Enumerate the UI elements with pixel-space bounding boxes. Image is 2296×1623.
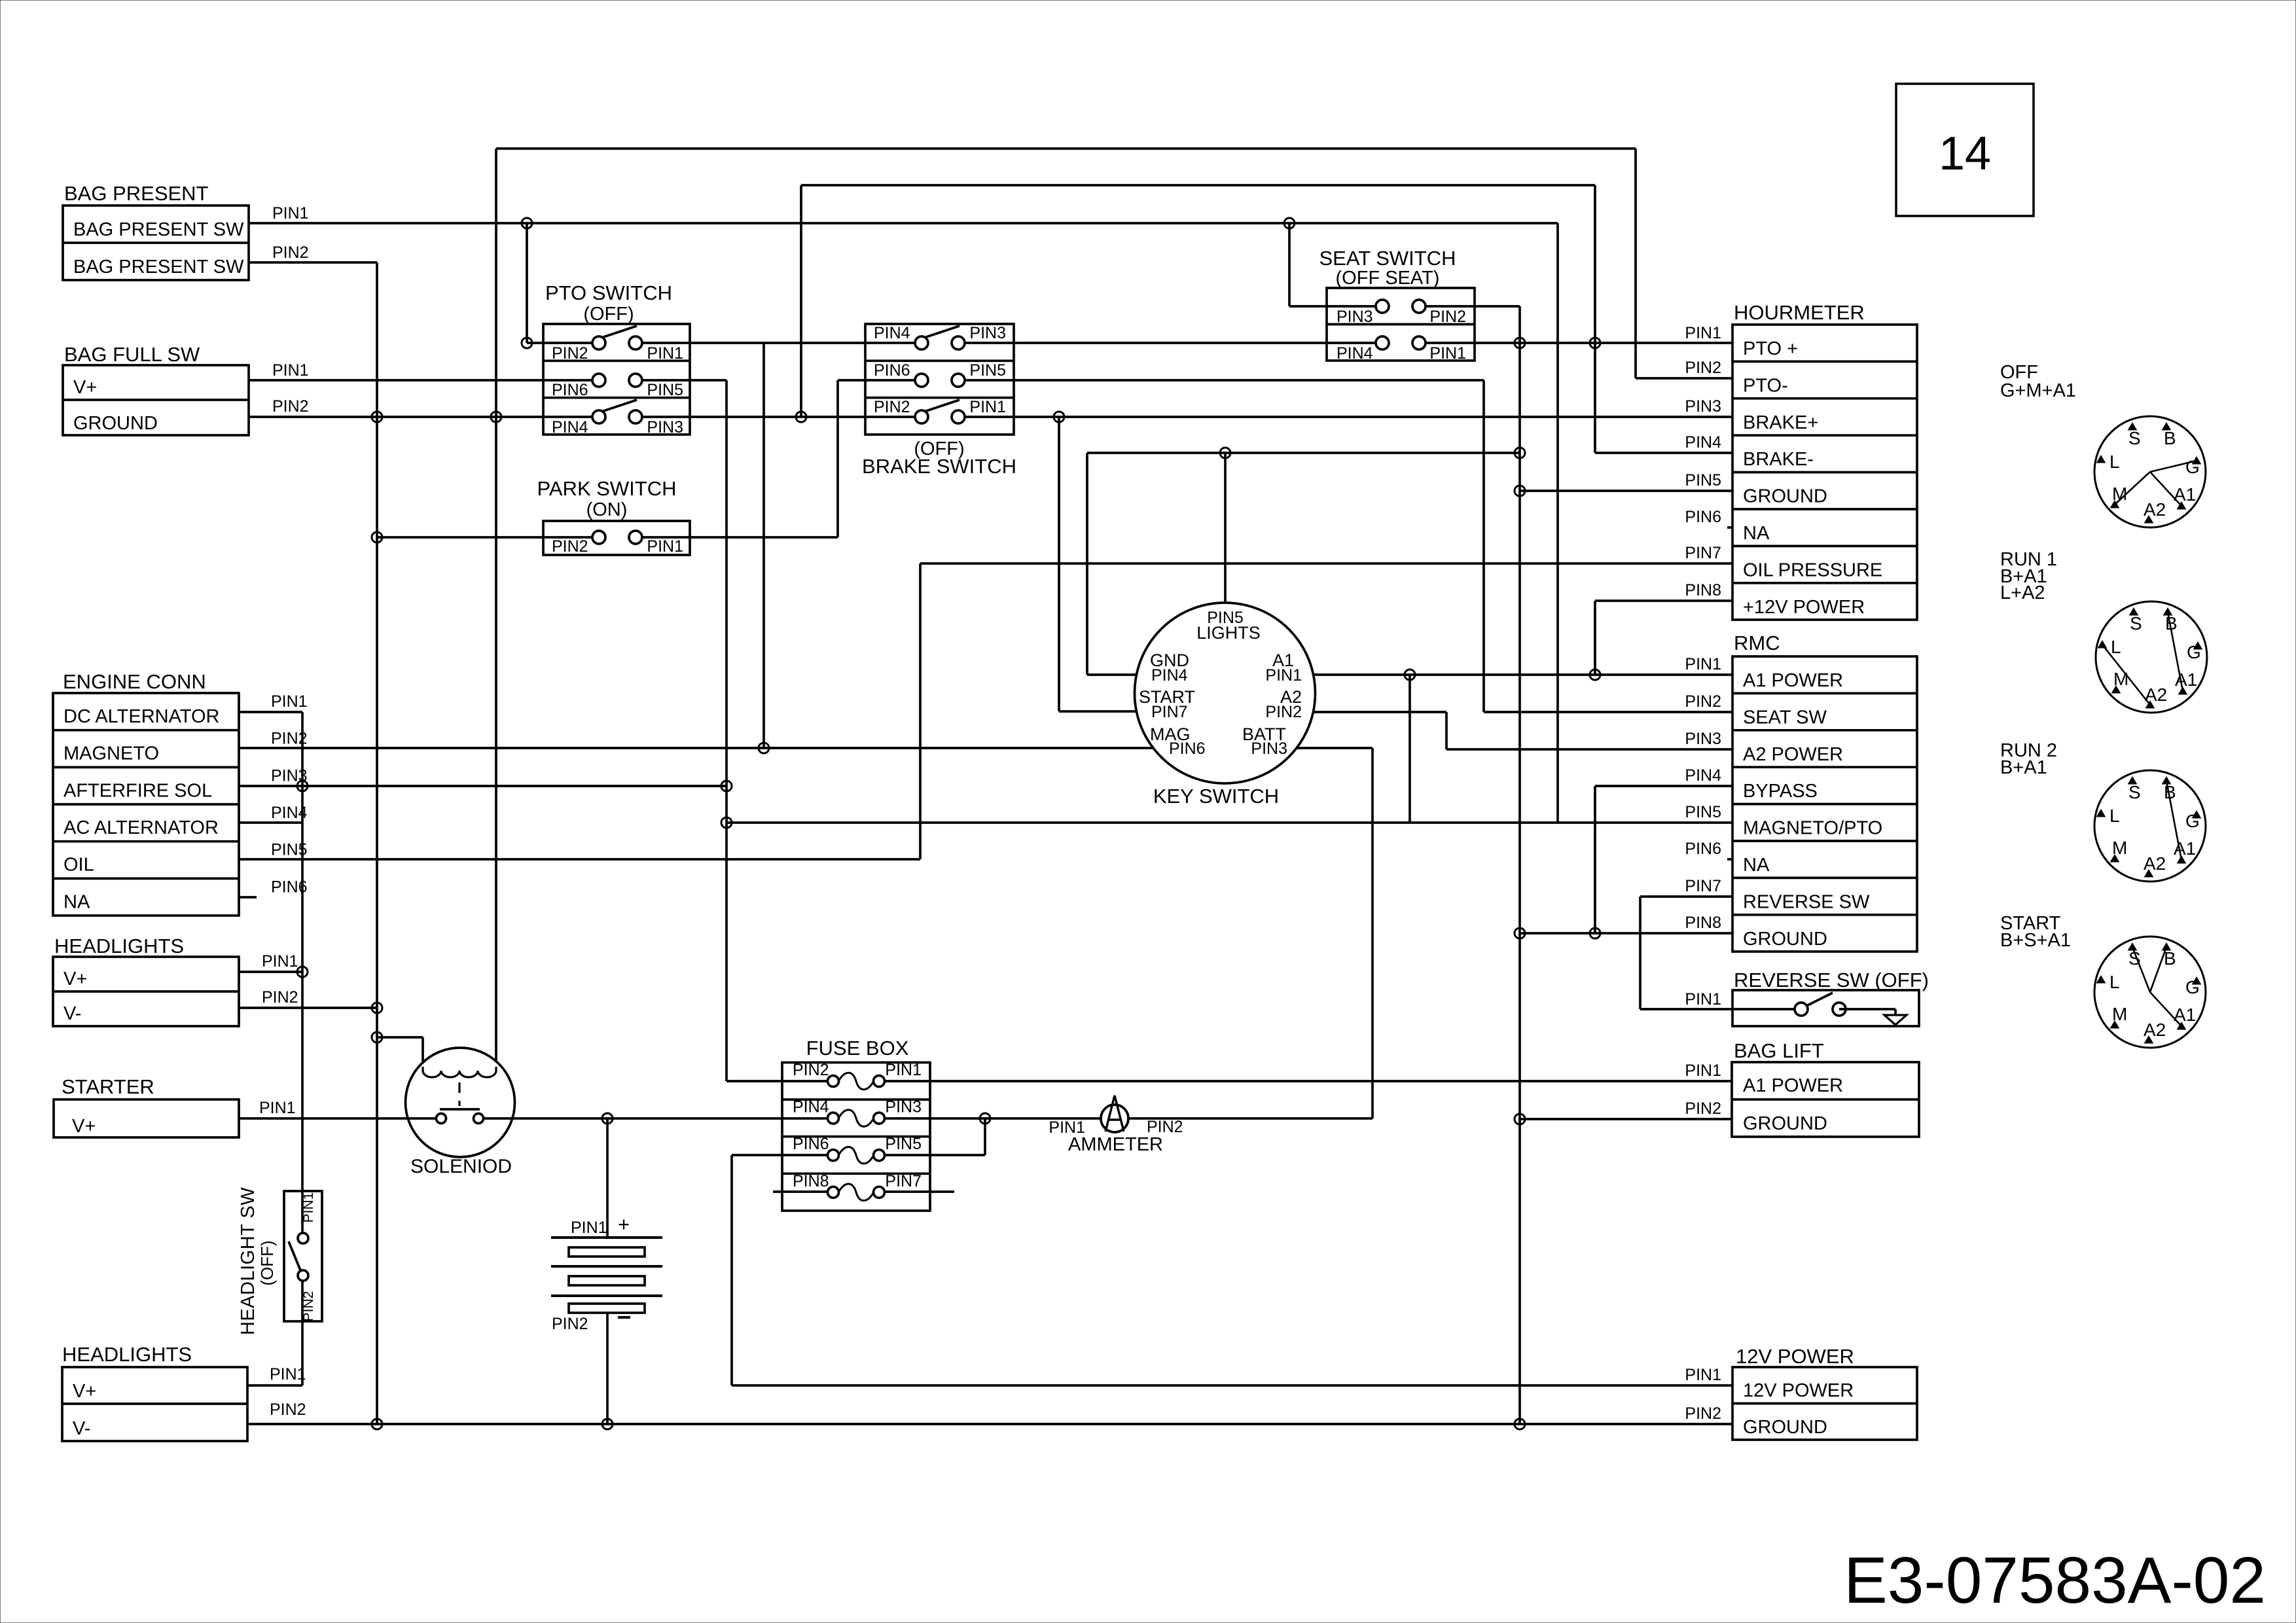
wire brake- riser x=2437 upper [1594,185,1596,453]
svg-text:S: S [2128,782,2141,802]
pin label PIN1 (HOURMETER) [1685,324,1721,342]
svg-text:PIN6: PIN6 [793,1135,829,1153]
wire A2 jog riser x=2210 [1445,712,1448,749]
connector box HEADLIGHTS upper [53,957,239,1026]
wire PTO- riser x=2499 [1634,149,1637,378]
wire +12V riser x=2437 middle [1594,601,1596,675]
svg-text:BAG PRESENT: BAG PRESENT [64,182,209,205]
svg-text:PTO-: PTO- [1743,375,1788,396]
junction node (576,2176) [372,1419,382,1429]
svg-text:SEAT SW: SEAT SW [1743,707,1827,728]
wire fuse PIN6 riser to 12V x=1118 [730,1155,733,1385]
wire brake PIN1 to hourmeter BRAKE+ y=637 [958,416,1732,418]
pin label PIN2 (BAG FULL SW) [272,397,309,416]
wire seat-sw riser x=2267 [1482,380,1485,712]
svg-text:PIN2: PIN2 [1147,1118,1183,1136]
solenoid (circle, coil, plunger, contacts) [406,1048,515,1157]
svg-text:PIN8: PIN8 [1685,581,1721,599]
pin label PIN2 (ENGINE CONN) [271,730,308,748]
svg-text:PIN6: PIN6 [1685,840,1721,858]
svg-text:PIN2: PIN2 [1685,359,1721,377]
wire key BATT riser x=2097 [1371,748,1374,1118]
wire ammeter PIN2 to batt riser y=1709 [1128,1117,1372,1120]
svg-text:BAG LIFT: BAG LIFT [1734,1039,1824,1062]
wire brake to key START riser x=1618 [1058,417,1060,711]
pin label PIN2 (HEADLIGHTS lower) [270,1400,306,1419]
svg-text:PIN3: PIN3 [271,766,308,785]
svg-text:PIN6: PIN6 [552,381,588,399]
ignition START label [2000,913,2071,951]
svg-text:BAG PRESENT SW: BAG PRESENT SW [73,257,244,277]
wire seat switch row1 to ground riser y=468 [1419,305,1520,308]
svg-text:PIN1: PIN1 [1685,1366,1721,1384]
wire fuse PIN7 stub y=1821 [879,1190,954,1193]
ignition diagram RUN 1 [2096,601,2207,713]
wire right ground riser x=2322 [1518,306,1521,1424]
svg-text:PIN3: PIN3 [969,324,1006,342]
wire hourmeter NA stub y=806 [1727,526,1732,529]
junction node (1110,1257) [721,817,732,828]
svg-text:BRAKE-: BRAKE- [1743,449,1814,470]
svg-text:SEAT SWITCH: SEAT SWITCH [1319,247,1456,270]
switch box SEAT SWITCH [1327,288,1475,363]
pin label PIN5 (HOURMETER) [1685,471,1721,490]
HOURMETER (title) [1734,301,1865,324]
svg-text:PIN6: PIN6 [1169,740,1206,758]
svg-text:V-: V- [73,1418,90,1439]
svg-text:PIN4: PIN4 [793,1098,829,1116]
svg-text:L: L [2111,637,2121,657]
svg-text:PIN1: PIN1 [647,344,683,363]
pin label PIN6 (RMC) [1685,840,1721,858]
connector box HOURMETER [1732,325,1917,620]
ammeter (circle with A) [1101,1096,1128,1132]
svg-text:PIN2: PIN2 [552,1315,588,1333]
ignition RUN 2 label [2000,740,2057,778]
junction node (1872,692) [1220,448,1230,458]
battery cells [551,1238,662,1313]
svg-text:STARTER: STARTER [62,1075,154,1098]
wire ground bus y=2176 [247,1423,1732,1425]
junction node (576,1540) [372,1003,382,1013]
connector: HEADLIGHTS lower (title) [62,1343,192,1366]
junction node (1167,1143) [759,743,769,753]
wire engine AFTERFIRE SOL wire y=1201 [239,785,726,787]
svg-text:PIN4: PIN4 [1151,666,1188,685]
svg-text:PTO SWITCH: PTO SWITCH [545,281,672,304]
pin label PIN1 (BAG FULL SW) [272,361,309,380]
svg-text:12V POWER: 12V POWER [1736,1345,1854,1368]
svg-text:REVERSE SW (OFF): REVERSE SW (OFF) [1734,969,1929,991]
wire key LIGHTS riser x=1872 [1224,453,1227,603]
svg-text:PIN4: PIN4 [874,324,910,342]
svg-text:AMMETER: AMMETER [1068,1134,1163,1155]
wire seat PIN1 to hourmeter PTO+ y=524 [1419,342,1732,344]
svg-text:PIN7: PIN7 [885,1172,922,1190]
svg-text:PIN5: PIN5 [1685,803,1721,821]
svg-text:PIN5: PIN5 [1685,471,1721,490]
wire magneto/PTO wire to RMC y=1257 [726,821,1732,824]
SOLENIOD (label) [410,1156,512,1177]
wire bag present riser x=805 [526,223,528,343]
svg-text:GROUND: GROUND [1743,929,1827,950]
svg-text:PTO +: PTO + [1743,338,1798,359]
wire PTO PIN5 to fuse riser y=581 [636,379,726,382]
pin label PIN1 (ENGINE CONN) [271,692,308,711]
svg-text:RMC: RMC [1734,632,1780,654]
svg-text:14: 14 [1939,128,1991,180]
svg-text:PIN8: PIN8 [793,1172,829,1190]
svg-text:PIN4: PIN4 [1685,766,1721,785]
junction node (2437,1426) [1590,928,1600,938]
svg-text:PIN2: PIN2 [262,988,298,1007]
wire key GND wire y=1031 [1087,673,1136,676]
connector box 12V POWER [1732,1367,1917,1440]
page number box 14 [1896,84,2034,216]
wire brake PIN6 to park riser y=581 [838,379,922,382]
wire seat switch PIN3 feed y=468 [1289,305,1382,308]
connector box BAG LIFT [1732,1062,1919,1137]
wire top bus from solenoid-coil riser to PTO- riser, y=227 [496,147,1636,150]
switch box REVERSE SW [1732,990,1919,1026]
wire brake PIN3 to seat PIN4 y=524 [958,342,1382,344]
wire headlights V- wire y=1540 [239,1007,377,1009]
wire ground link y=692 [1087,452,1520,454]
pin label PIN2 (BAG LIFT) [1685,1099,1721,1118]
svg-text:PIN1: PIN1 [571,1219,607,1237]
svg-text:GROUND: GROUND [1743,1417,1827,1438]
svg-text:PIN2: PIN2 [1265,703,1302,721]
svg-text:MAGNETO/PTO: MAGNETO/PTO [1743,818,1882,839]
junction node (2322,1426) [1515,928,1525,938]
svg-text:HOURMETER: HOURMETER [1734,301,1865,324]
svg-text:NA: NA [1743,855,1770,876]
svg-text:PIN4: PIN4 [1685,433,1721,452]
wire PTO PIN1 to magneto riser x=1167 [762,343,765,748]
wire BAG FULL PIN1 to PTO PIN6 y=581 [249,379,599,382]
svg-text:(OFF SEAT): (OFF SEAT) [1336,268,1440,289]
svg-text:FUSE BOX: FUSE BOX [806,1037,909,1060]
svg-text:PIN1: PIN1 [262,952,298,971]
REVERSE SW (OFF) title [1734,969,1929,991]
ignition diagram START [2094,936,2206,1048]
svg-text:AC ALTERNATOR: AC ALTERNATOR [63,817,219,838]
wire PTO PIN1 to brake PIN4 y=524 [636,342,922,344]
svg-text:PARK SWITCH: PARK SWITCH [537,477,677,500]
pin label PIN3 (RMC) [1685,730,1721,748]
wire engine AC ALTERNATOR stub y=1257 [239,821,302,824]
switch BRAKE SWITCH (title) [862,438,1016,478]
junction node (1505,1709) [980,1113,990,1124]
wire fuse PIN5 wire y=1765 [879,1154,985,1156]
wire fuse PIN3-PIN5 riser x=1505 [984,1118,986,1155]
svg-text:PIN3: PIN3 [885,1098,922,1116]
svg-text:A2: A2 [2144,853,2166,874]
svg-text:A1: A1 [2175,669,2197,690]
svg-text:PIN1: PIN1 [1685,1061,1721,1080]
pin label PIN1 (BAG LIFT) [1685,1061,1721,1080]
svg-text:PIN3: PIN3 [1336,308,1373,326]
svg-text:PIN1: PIN1 [647,537,683,556]
svg-text:PIN2: PIN2 [1429,308,1466,326]
svg-text:KEY SWITCH: KEY SWITCH [1153,785,1279,808]
svg-text:A1 POWER: A1 POWER [1743,1075,1843,1096]
junction node (1970,341) [1284,218,1295,228]
wire reverse sw riser x=2506 [1639,897,1641,1009]
junction node (576,637) [372,412,382,422]
svg-text:PIN5: PIN5 [885,1135,922,1153]
svg-text:L: L [2109,452,2120,472]
svg-text:PIN1: PIN1 [1685,655,1721,673]
wire starter to solenoid contact y=1709 [239,1117,441,1120]
wire reverse switch PIN1 wire y=1542 [1640,1008,1801,1010]
wire seat feed riser x=1970 [1288,223,1291,306]
ignition OFF label [2000,362,2076,401]
wire PTO PIN5 riser to fuse x=1110 [725,380,728,1081]
pin label PIN3 (ENGINE CONN) [271,766,308,785]
svg-text:PIN1: PIN1 [259,1099,296,1117]
svg-text:PIN3: PIN3 [647,418,683,437]
svg-text:L+A2: L+A2 [2000,582,2045,603]
RMC (title) [1734,632,1780,654]
wire engine MAGNETO to key MAG y=1143 [239,747,1153,749]
fuse box with 4 fuses [782,1061,930,1211]
wire solenoid coil riser x=758 [495,149,497,1061]
svg-text:BAG FULL SW: BAG FULL SW [64,343,200,366]
junction node (576,821) [372,532,382,543]
svg-text:V+: V+ [73,1381,96,1402]
junction node (2322,692) [1515,448,1525,458]
svg-text:S: S [2128,428,2141,448]
junction node (2322,750) [1515,486,1525,496]
svg-text:PIN8: PIN8 [1685,914,1721,932]
svg-text:PIN7: PIN7 [1685,544,1721,562]
svg-text:PIN2: PIN2 [1685,1404,1721,1423]
wire fuse PIN2 feed y=1652 [726,1080,833,1082]
svg-text:(OFF): (OFF) [257,1240,277,1285]
junction node (576,1585) [372,1032,382,1043]
svg-text:+: + [618,1213,630,1236]
svg-text:12V POWER: 12V POWER [1743,1380,1854,1401]
wire A1 to magneto/pto riser x=2154 [1408,675,1411,823]
pin label PIN7 (RMC) [1685,877,1721,895]
pin label PIN1 (STARTER) [259,1099,296,1117]
pin label PIN1 (HEADLIGHTS upper) [262,952,298,971]
svg-text:E3-07583A-02: E3-07583A-02 [1844,1544,2266,1617]
connector box RMC [1732,656,1917,952]
svg-text:PIN2: PIN2 [272,243,309,262]
wire park switch PIN1 to brake riser y=821 [636,536,838,539]
wire BAG PRESENT PIN2 y=401 [249,261,377,264]
wire hourmeter +12V feed y=918 [1595,599,1732,602]
wire riser x=1224 [800,185,802,417]
wire headlights lower V+ wire y=2117 [247,1384,302,1387]
wire engine DC ALTERNATOR stub y=1088 [239,711,302,713]
pin label PIN7 (HOURMETER) [1685,544,1721,562]
svg-text:G+M+A1: G+M+A1 [2000,380,2076,401]
chassis ground symbol (reverse sw) [1839,1009,1907,1025]
svg-text:PIN3: PIN3 [1685,397,1721,416]
svg-text:PIN1: PIN1 [301,1192,316,1223]
wire bag present to magneto/pto riser x=2380 [1556,223,1559,823]
wire DC alternator riser x=462 upper [301,712,304,1234]
svg-text:PIN2: PIN2 [271,730,308,748]
svg-text:V-: V- [63,1003,81,1024]
svg-text:PIN5: PIN5 [969,361,1006,380]
connector: BAG PRESENT (title) [64,182,209,205]
pin label PIN2 (HOURMETER) [1685,359,1721,377]
svg-text:OIL: OIL [63,855,94,876]
svg-text:PIN1: PIN1 [1685,990,1721,1008]
svg-text:PIN4: PIN4 [271,804,308,822]
FUSE BOX (title) [806,1037,909,1060]
svg-text:A2: A2 [2144,499,2166,520]
pin label PIN2 (HEADLIGHTS upper) [262,988,298,1007]
connector: STARTER (title) [62,1075,154,1098]
wire headlight switch riser x=462 lower [301,1280,304,1385]
svg-text:BYPASS: BYPASS [1743,781,1818,802]
svg-text:A2 POWER: A2 POWER [1743,744,1843,765]
wire ground riser x=576 [376,262,378,1424]
key switch circle with pin labels [1135,603,1316,783]
wire key GND riser x=1661 [1086,453,1088,675]
wire BAG PRESENT PIN1 bus y=341 [249,222,1558,224]
svg-text:(OFF): (OFF) [583,304,634,325]
wire fuse PIN8 stub y=1821 [773,1190,833,1193]
svg-text:GROUND: GROUND [1743,486,1827,507]
svg-text:ENGINE CONN: ENGINE CONN [63,670,206,693]
svg-text:A2: A2 [2144,1020,2166,1040]
wire BAG FULL PIN2 to PTO PIN4 y=637 [249,416,599,418]
junction node (2322,524) [1515,338,1525,348]
junction node (462,1201) [297,781,308,791]
ignition RUN 1 label [2000,549,2057,603]
switch box PTO SWITCH [543,324,690,437]
connector: ENGINE CONN (title) [63,670,206,693]
svg-text:PIN2: PIN2 [793,1061,829,1079]
headlight switch (vertical box) [238,1187,322,1335]
pin label PIN1 (REVERSE SW) [1685,990,1721,1008]
svg-text:PIN1: PIN1 [270,1365,306,1383]
svg-text:+12V POWER: +12V POWER [1743,597,1865,618]
svg-text:PIN1: PIN1 [272,204,309,223]
pin label PIN1 (HEADLIGHTS lower) [270,1365,306,1383]
svg-text:PIN2: PIN2 [552,537,588,556]
connector box STARTER [54,1099,239,1137]
wire engine NA stub y=1371 [239,896,257,899]
wire RMC REVERSE SW wire y=1370 [1640,895,1732,898]
svg-text:B: B [2164,428,2176,448]
svg-text:A1 POWER: A1 POWER [1743,670,1843,691]
svg-text:L: L [2109,806,2120,826]
ammeter pin labels and title [1049,1118,1183,1155]
svg-text:PIN2: PIN2 [270,1400,306,1419]
document number E3-07583A-02 [1844,1544,2266,1617]
pin label PIN8 (HOURMETER) [1685,581,1721,599]
svg-text:PIN1: PIN1 [1429,344,1466,363]
svg-text:NA: NA [1743,523,1770,544]
junction node (758,637) [491,412,501,422]
connector box HEADLIGHTS lower [62,1367,247,1441]
svg-text:GROUND: GROUND [1743,1113,1827,1134]
wire solenoid coil left riser x=646 [422,1037,424,1061]
svg-text:PIN7: PIN7 [1151,703,1188,721]
svg-text:PIN1: PIN1 [1685,324,1721,342]
pin label PIN4 (RMC) [1685,766,1721,785]
wire RMC NA stub y=1313 [1727,858,1732,861]
svg-text:PIN3: PIN3 [1251,740,1287,758]
junction node (1110,1201) [721,781,732,791]
svg-text:REVERSE SW: REVERSE SW [1743,891,1870,912]
wire solenoid contact to fuse PIN4 y=1709 [478,1117,833,1120]
svg-text:PIN1: PIN1 [969,398,1006,416]
pin label PIN2 (RMC) [1685,692,1721,711]
wire key A2 wire y=1088 [1314,711,1446,713]
svg-text:PIN7: PIN7 [1685,877,1721,895]
svg-text:OIL PRESSURE: OIL PRESSURE [1743,560,1882,580]
junction node (928,1709) [602,1113,613,1124]
connector: HEADLIGHTS upper (title) [54,935,184,957]
junction node (2322,1710) [1515,1114,1525,1124]
wire bag lift GROUND feed y=1710 [1520,1118,1732,1120]
wire fuse PIN3 to ammeter y=1709 [879,1117,1101,1120]
wire headlights V+ wire y=1485 [239,971,302,973]
junction node (805,524) [522,338,532,348]
KEY SWITCH (title) [1153,785,1279,808]
svg-text:DC ALTERNATOR: DC ALTERNATOR [63,706,220,727]
wire solenoid coil tap y=1585 [377,1036,423,1039]
pin label PIN6 (HOURMETER) [1685,508,1721,526]
svg-text:BAG PRESENT SW: BAG PRESENT SW [73,219,244,240]
wire hourmeter BRAKE- feed y=692 [1595,452,1732,454]
pin label PIN3 (HOURMETER) [1685,397,1721,416]
wire fuse PIN1 to bag lift A1 y=1652 [879,1080,1732,1082]
connector box BAG PRESENT [63,205,249,280]
pin label PIN1 (12V POWER) [1685,1366,1721,1384]
wire key A1 to RMC A1 POWER y=1031 [1313,673,1732,676]
svg-text:PIN4: PIN4 [1336,344,1373,363]
connector box ENGINE CONN [53,693,239,916]
switch PTO SWITCH (title) [545,281,672,325]
wire hourmeter GROUND feed y=750 [1520,490,1732,492]
svg-text:PIN6: PIN6 [1685,508,1721,526]
pin label PIN2 (12V POWER) [1685,1404,1721,1423]
wire key BATT wire y=1143 [1297,747,1372,749]
pin label PIN5 (RMC) [1685,803,1721,821]
BAG LIFT (title) [1734,1039,1824,1062]
svg-text:PIN3: PIN3 [1685,730,1721,748]
svg-text:PIN6: PIN6 [874,361,910,380]
svg-text:PIN2: PIN2 [1685,1099,1721,1118]
wire PTO PIN3 to brake PIN2 y=637 [636,416,922,418]
switch box BRAKE SWITCH [865,324,1014,435]
wire brake PIN5 to RMC seat-sw riser y=581 [958,379,1484,382]
wire PTO PIN2 stub to node x=805 [527,342,599,344]
pin label PIN6 (ENGINE CONN) [271,878,308,896]
svg-text:MAGNETO: MAGNETO [63,743,159,764]
wire battery negative riser x=928 [606,1313,609,1424]
svg-text:PIN2: PIN2 [1685,692,1721,711]
wire bypass riser x=2437 lower [1594,786,1596,933]
pin label PIN5 (ENGINE CONN) [271,841,308,859]
svg-text:PIN2: PIN2 [272,397,309,416]
svg-text:B+A1: B+A1 [2000,757,2047,778]
switch SEAT SWITCH (title) [1319,247,1456,289]
svg-text:SOLENIOD: SOLENIOD [410,1156,512,1177]
wire brake PIN5 to RMC SEAT SW y=1088 [1484,711,1732,713]
wire RMC A2 POWER feed y=1145 [1446,748,1732,751]
switch box PARK SWITCH [543,521,690,556]
